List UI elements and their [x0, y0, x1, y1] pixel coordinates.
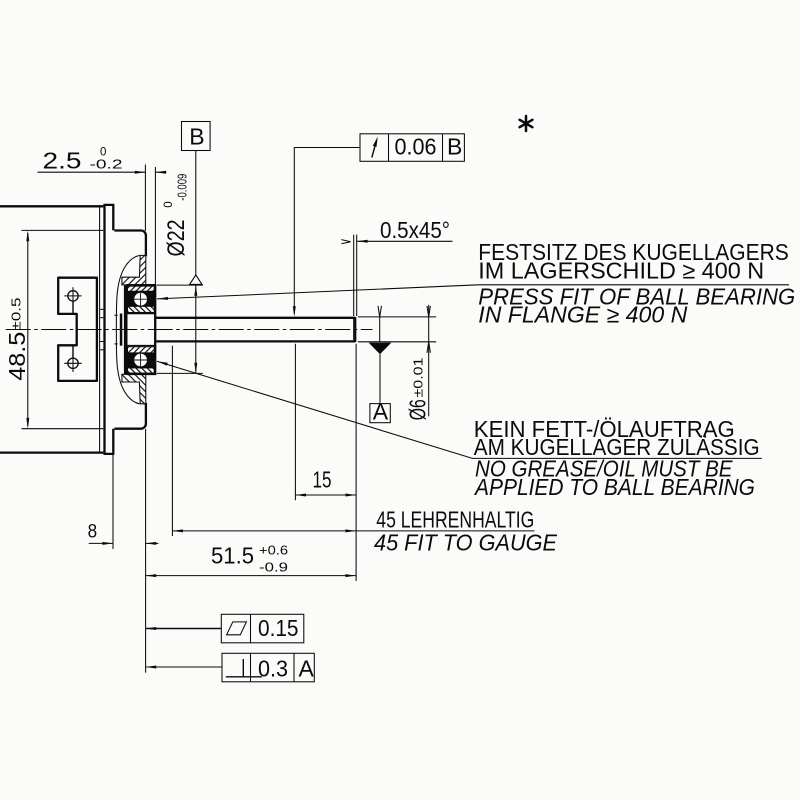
chamfer arrowhead [357, 240, 368, 243]
dimension line 51.5 [146, 575, 356, 577]
screw hole lower [64, 345, 81, 372]
dimension line 8 right part [146, 542, 159, 544]
arrowhead left [295, 494, 306, 497]
svg-text:0.15: 0.15 [258, 615, 299, 641]
dome silhouette (half) [116, 255, 139, 329]
bearing outer ring hatch [128, 286, 155, 291]
svg-text:48.5: 48.5 [4, 332, 30, 381]
svg-text:2.5: 2.5 [43, 148, 82, 174]
mounting bracket [58, 278, 97, 381]
tick on dome [114, 314, 117, 316]
bearing boss bar [124, 285, 128, 330]
asterisk marker [520, 116, 533, 131]
dimension line 15 [295, 494, 356, 496]
chamfer dimension line [357, 240, 453, 242]
screw hole upper [64, 287, 81, 314]
svg-text:IM LAGERSCHILD ≥ 400 N: IM LAGERSCHILD ≥ 400 N [478, 258, 764, 284]
runout tolerance frame box [360, 134, 464, 162]
arrowhead down [26, 418, 29, 429]
extension line bearing face [154, 167, 156, 285]
svg-text:Ø22: Ø22 [163, 220, 190, 257]
bell top outline [114, 231, 145, 257]
flatness tolerance frame box [221, 614, 303, 643]
arrowhead right [345, 529, 356, 532]
svg-text:B: B [447, 134, 462, 160]
svg-text:Ø6: Ø6 [405, 399, 431, 420]
svg-text:45 FIT TO GAUGE: 45 FIT TO GAUGE [374, 529, 558, 555]
extension line bearing top [157, 284, 203, 286]
inner ring bore edge [128, 313, 155, 315]
shaft upper edge [155, 317, 355, 319]
svg-text:15: 15 [313, 466, 332, 492]
datum A stem upper [379, 317, 381, 342]
svg-text:-0.9: -0.9 [259, 560, 288, 575]
bearing inner ring hatch [128, 306, 155, 312]
svg-text:IN FLANGE ≥ 400 N: IN FLANGE ≥ 400 N [478, 302, 687, 328]
bearing right face / shaft shoulder [154, 284, 156, 329]
frame divider 2 [293, 653, 295, 682]
leader to lower bearing [157, 361, 762, 458]
svg-text:A: A [299, 656, 315, 682]
bearing top edge [126, 284, 156, 286]
extension line 45 left [171, 346, 173, 536]
datum B open triangle [190, 275, 202, 285]
leader arrowhead [293, 306, 296, 317]
plate hole ticks [100, 308, 103, 310]
svg-text:8: 8 [88, 521, 98, 543]
svg-text:B: B [189, 124, 204, 150]
frame divider 1 [250, 653, 252, 682]
leader arrowhead [146, 666, 157, 669]
frame divider 2 [442, 134, 444, 162]
chamfer open arrowhead right [341, 240, 350, 244]
svg-text:±0.5: ±0.5 [9, 298, 24, 331]
svg-text:0: 0 [163, 201, 175, 207]
open arrowhead up [427, 342, 430, 353]
svg-text:±0.01: ±0.01 [410, 358, 425, 398]
svg-text:+0.6: +0.6 [259, 543, 288, 558]
leader arrowhead [157, 361, 168, 365]
arrowhead down [194, 363, 197, 374]
chamfer extension line 1 [353, 235, 355, 316]
frame divider [250, 614, 252, 643]
extension line plate face [112, 455, 114, 550]
datum A frame [370, 404, 390, 423]
bearing ball race band [128, 291, 156, 306]
svg-text:APPLIED TO BALL BEARING: APPLIED TO BALL BEARING [473, 474, 755, 500]
extension line shaft end [355, 344, 357, 581]
ball [134, 292, 148, 306]
svg-text:0.3: 0.3 [258, 656, 288, 682]
dimension line 2.5 left part [38, 171, 146, 173]
dimension line 45 with underline [172, 530, 534, 532]
datum B frame [182, 122, 211, 151]
centerline [6, 329, 373, 331]
arrowhead left [155, 171, 166, 174]
arrowhead up [194, 285, 197, 296]
extension line bell face [144, 165, 146, 232]
datum B stem / Ø22 dimension line [195, 151, 197, 374]
runout symbol arrow [372, 137, 378, 158]
leader arrowhead [157, 297, 168, 300]
svg-text:0.06: 0.06 [395, 134, 437, 160]
extension line bearing bottom [157, 372, 203, 374]
motor body top edge [0, 205, 103, 207]
flatness symbol parallelogram [227, 622, 247, 635]
datum A stem lower [379, 354, 381, 403]
svg-text:0.5x45°: 0.5x45° [380, 217, 450, 243]
shaft end edge (half) [354, 317, 356, 329]
extension line gauge plane [294, 344, 296, 500]
arrowhead right [135, 171, 146, 174]
perpendicularity tolerance frame box [222, 653, 314, 682]
extension line bell face long [145, 429, 147, 673]
stator line top [22, 229, 104, 231]
motor body bottom edge [0, 451, 103, 453]
svg-text:-0.2: -0.2 [90, 157, 123, 172]
svg-text:-0.009: -0.009 [175, 174, 190, 201]
flange plate [103, 205, 114, 454]
dimension line 2.5 right part [155, 171, 166, 173]
open arrowhead on extension [378, 306, 382, 317]
dimension line 48.5 [27, 233, 29, 426]
extension line shaft top [358, 316, 436, 318]
dimension line Ø6 [428, 305, 430, 416]
arrowhead left [172, 529, 183, 532]
motor end face [99, 207, 101, 452]
leader to upper bearing [157, 285, 789, 299]
dimension line 8 left part [89, 542, 113, 544]
leader to plate face [146, 628, 221, 630]
frame divider 1 [388, 134, 390, 162]
svg-text:A: A [373, 399, 389, 425]
arrowhead left [146, 542, 157, 545]
bell wall cut (hatched) [122, 255, 146, 285]
chamfer extension line 2 [356, 235, 358, 316]
arrowhead left [146, 574, 157, 577]
arrowhead right [345, 574, 356, 577]
leader from frame to shaft [294, 148, 360, 314]
arrowhead right [102, 542, 113, 545]
open arrowhead down [427, 306, 430, 317]
leader arrowhead [146, 627, 157, 630]
shaft chamfer line (half) [353, 319, 355, 330]
svg-text:51.5: 51.5 [211, 543, 254, 569]
leader to plate face [146, 666, 222, 668]
perpendicularity symbol [226, 659, 262, 677]
end shield bearing assembly (upper half, mirrored below) [100, 231, 355, 330]
preload washer bar [120, 314, 123, 330]
extension line shaft bottom [358, 341, 436, 343]
stator line bottom [22, 428, 104, 430]
datum A filled triangle [369, 343, 392, 355]
arrowhead right [346, 494, 357, 497]
arrowhead up [26, 230, 29, 241]
